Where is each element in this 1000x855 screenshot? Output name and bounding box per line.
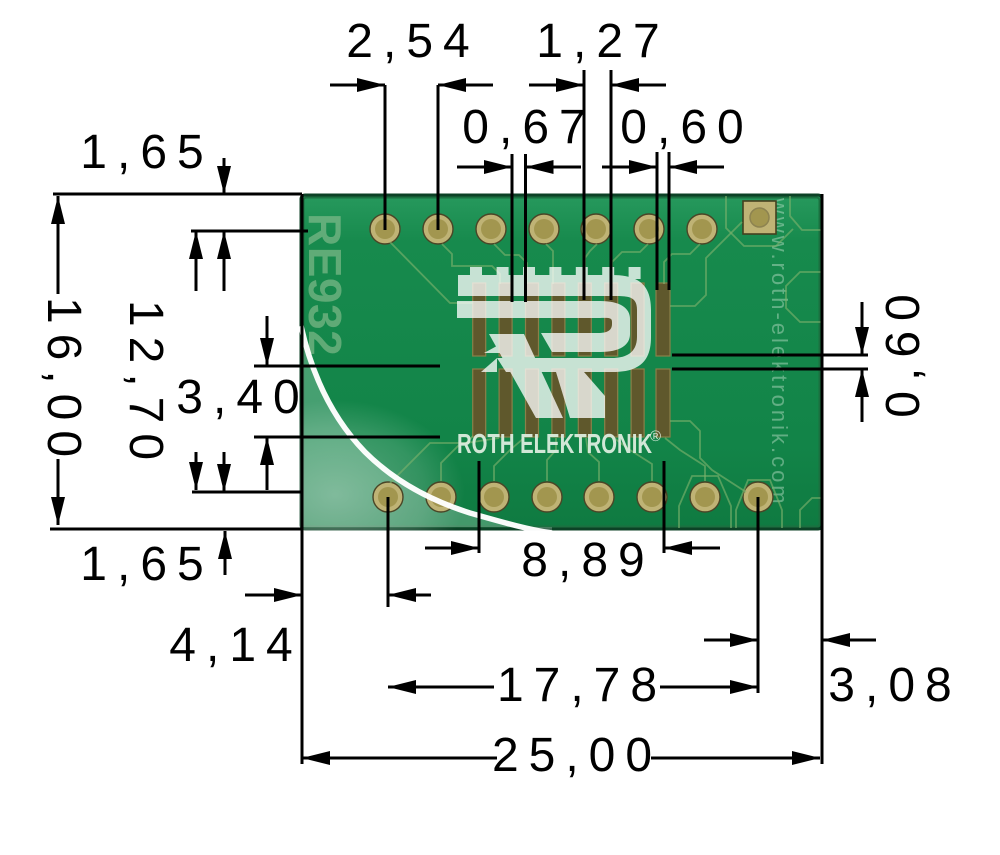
dimension 4,14 line	[245, 594, 302, 597]
trace hole B1 to pad 1 bottom	[390, 436, 473, 483]
hole pad top 3	[476, 214, 506, 244]
trace hole B5 to pad 5 bottom	[586, 438, 599, 481]
svg-text:16,00: 16,00	[37, 297, 90, 467]
logo R inner loop (second bar, inner band, middle bar)	[457, 301, 630, 352]
smd pad column 1 bottom	[473, 369, 486, 437]
svg-text:25,00: 25,00	[492, 729, 662, 782]
hole pad bottom 5	[584, 482, 614, 512]
logo leg wedge	[484, 334, 519, 353]
keepout arc top right	[790, 196, 822, 230]
hole pad bottom 6	[637, 482, 667, 512]
trace hole T2 to pad 2	[442, 244, 500, 284]
trace hole B6 to pad 6 bottom	[614, 438, 652, 481]
dimension 3,40 arrows	[266, 316, 269, 366]
extension line hole B1	[387, 497, 390, 607]
extension line pad top 3,40	[254, 365, 440, 368]
dimension 3,08 line	[704, 639, 758, 642]
dimension 1,65 bottom arrows	[223, 452, 226, 492]
hole pad bottom 4	[532, 482, 562, 512]
extension line pad1 center	[478, 461, 481, 553]
extension line pad5 center	[583, 70, 586, 300]
smd pad column 8 top	[656, 283, 670, 356]
trace hole B3 to pad 3 bottom	[494, 438, 524, 481]
pcb board RE932	[205, 195, 822, 590]
dimension 1,27 arrows	[529, 84, 584, 87]
hole pad bottom 7	[690, 482, 720, 512]
smd pad column 3 bottom	[526, 369, 539, 437]
extension line gap 0,67 left	[511, 154, 514, 302]
svg-text:0,60: 0,60	[877, 284, 930, 417]
svg-text:1,27: 1,27	[536, 15, 669, 68]
smd pad column 6 top	[605, 283, 618, 356]
hole pad top 5	[581, 214, 611, 244]
extension line pad8 right	[668, 152, 671, 290]
extension line hole row top	[191, 230, 308, 233]
trace hole T3 to pad 3	[494, 244, 527, 284]
keepout hexagon bottom hole 8	[736, 480, 782, 528]
smd pad column 1 top	[473, 283, 486, 356]
dimension 0,60 top arrows	[602, 166, 657, 169]
hole pad top 2	[423, 214, 453, 244]
hole pad top 4	[529, 214, 559, 244]
extension line hole T2	[437, 85, 440, 230]
logo comb teeth	[470, 267, 641, 279]
trace hole T6 to pad 6	[612, 244, 648, 284]
smd pad column 5 bottom	[578, 369, 591, 437]
svg-text:0,60: 0,60	[620, 101, 753, 154]
logo leg band B	[556, 372, 605, 418]
svg-text:1,65: 1,65	[80, 538, 213, 591]
extension line board left edge	[301, 194, 304, 764]
dimension 8,89 line	[425, 547, 479, 550]
trace hole T1 to pad 1	[390, 242, 473, 303]
smd pad column 7 top	[631, 283, 644, 356]
hole pad top 1	[370, 214, 400, 244]
hole pad top 6	[634, 214, 664, 244]
smd pad column 2 bottom	[499, 369, 512, 437]
svg-text:17,78: 17,78	[497, 659, 667, 712]
extension line pad8 gap top right	[672, 354, 868, 357]
keepout hexagon bottom right	[800, 498, 822, 528]
svg-text:3,40: 3,40	[176, 371, 309, 424]
trace pad 8 top to square pad	[670, 222, 742, 306]
hole pad bottom 2	[426, 482, 456, 512]
trace hole B2 to pad 2 bottom	[441, 438, 499, 481]
svg-text:®: ®	[650, 428, 661, 445]
extension line pad6 center	[610, 70, 613, 300]
trace hole T4 to pad 4	[546, 244, 553, 284]
keepout hexagon right mid	[786, 272, 822, 322]
hole pad top 7	[687, 214, 717, 244]
svg-text:2,54: 2,54	[346, 15, 479, 68]
extension line hole row bottom	[192, 491, 302, 494]
smd pad column 6 bottom	[605, 369, 618, 437]
svg-text:0,67: 0,67	[462, 101, 595, 154]
extension line hole T1	[384, 85, 387, 230]
extension line hole B8	[757, 497, 760, 693]
trace hole T7 to pad 8 top	[664, 244, 700, 284]
trace pad 8 bottom to right	[670, 421, 746, 492]
dimension 16,00 shaft	[57, 196, 60, 294]
hole pad bottom 1	[373, 482, 403, 512]
trace hole B4 to pad 4 bottom	[547, 438, 556, 481]
svg-text:3,08: 3,08	[828, 659, 961, 712]
hole pad bottom 3	[479, 482, 509, 512]
dimension 0,60 right arrows	[861, 302, 864, 355]
svg-text:12,70: 12,70	[119, 300, 172, 470]
dimension 17,78 line	[388, 686, 494, 689]
extension line board bottom	[50, 528, 302, 531]
keepout hexagon around square pad	[726, 196, 793, 246]
glare arc reflection	[301, 326, 552, 533]
dimension 12,70 shaft	[195, 231, 198, 291]
smd pad column 5 top	[578, 283, 591, 356]
smd pad column 7 bottom	[631, 369, 644, 437]
keepout hexagon bottom hole 7	[679, 476, 731, 528]
svg-text:1,65: 1,65	[80, 126, 213, 179]
smd pad column 3 top	[526, 283, 539, 356]
svg-text:RE932: RE932	[299, 213, 351, 356]
square pad top 8	[743, 201, 776, 234]
extension line pad bottom 3,40	[254, 436, 440, 439]
extension line pad8 center	[663, 461, 666, 553]
hole pad bottom 8	[743, 482, 773, 512]
trace hole T5 to pad 5	[585, 244, 597, 284]
svg-text:8,89: 8,89	[521, 534, 654, 587]
extension line pad8 left	[656, 152, 659, 290]
smd pad column 2 top	[499, 283, 512, 356]
dimension 25,00 line	[302, 757, 497, 760]
extension line pad8 gap bottom right	[672, 368, 868, 371]
extension line board top	[53, 193, 302, 196]
smd pad column 8 bottom	[656, 369, 670, 437]
dimension 1,65 top arrows	[223, 158, 226, 194]
logo leg band A	[489, 334, 563, 418]
trace hole B7 to pad 8 bottom	[665, 438, 705, 481]
svg-text:ROTH ELEKTRONIK: ROTH ELEKTRONIK	[457, 428, 652, 459]
smd pad column 4 top	[552, 283, 565, 356]
logo lower bar left point	[481, 358, 497, 372]
smd pad column 4 bottom	[552, 369, 565, 437]
logo R outer loop (top bar, right band, lower bar)	[458, 275, 651, 372]
dimension 0,67 arrows	[457, 166, 512, 169]
extension line gap 0,67 right	[524, 154, 527, 302]
svg-text:4,14: 4,14	[169, 619, 302, 672]
glare highlight bottom-left	[301, 326, 552, 533]
dimension 2,54 arrows	[330, 84, 385, 87]
extension line board right edge	[821, 194, 824, 764]
